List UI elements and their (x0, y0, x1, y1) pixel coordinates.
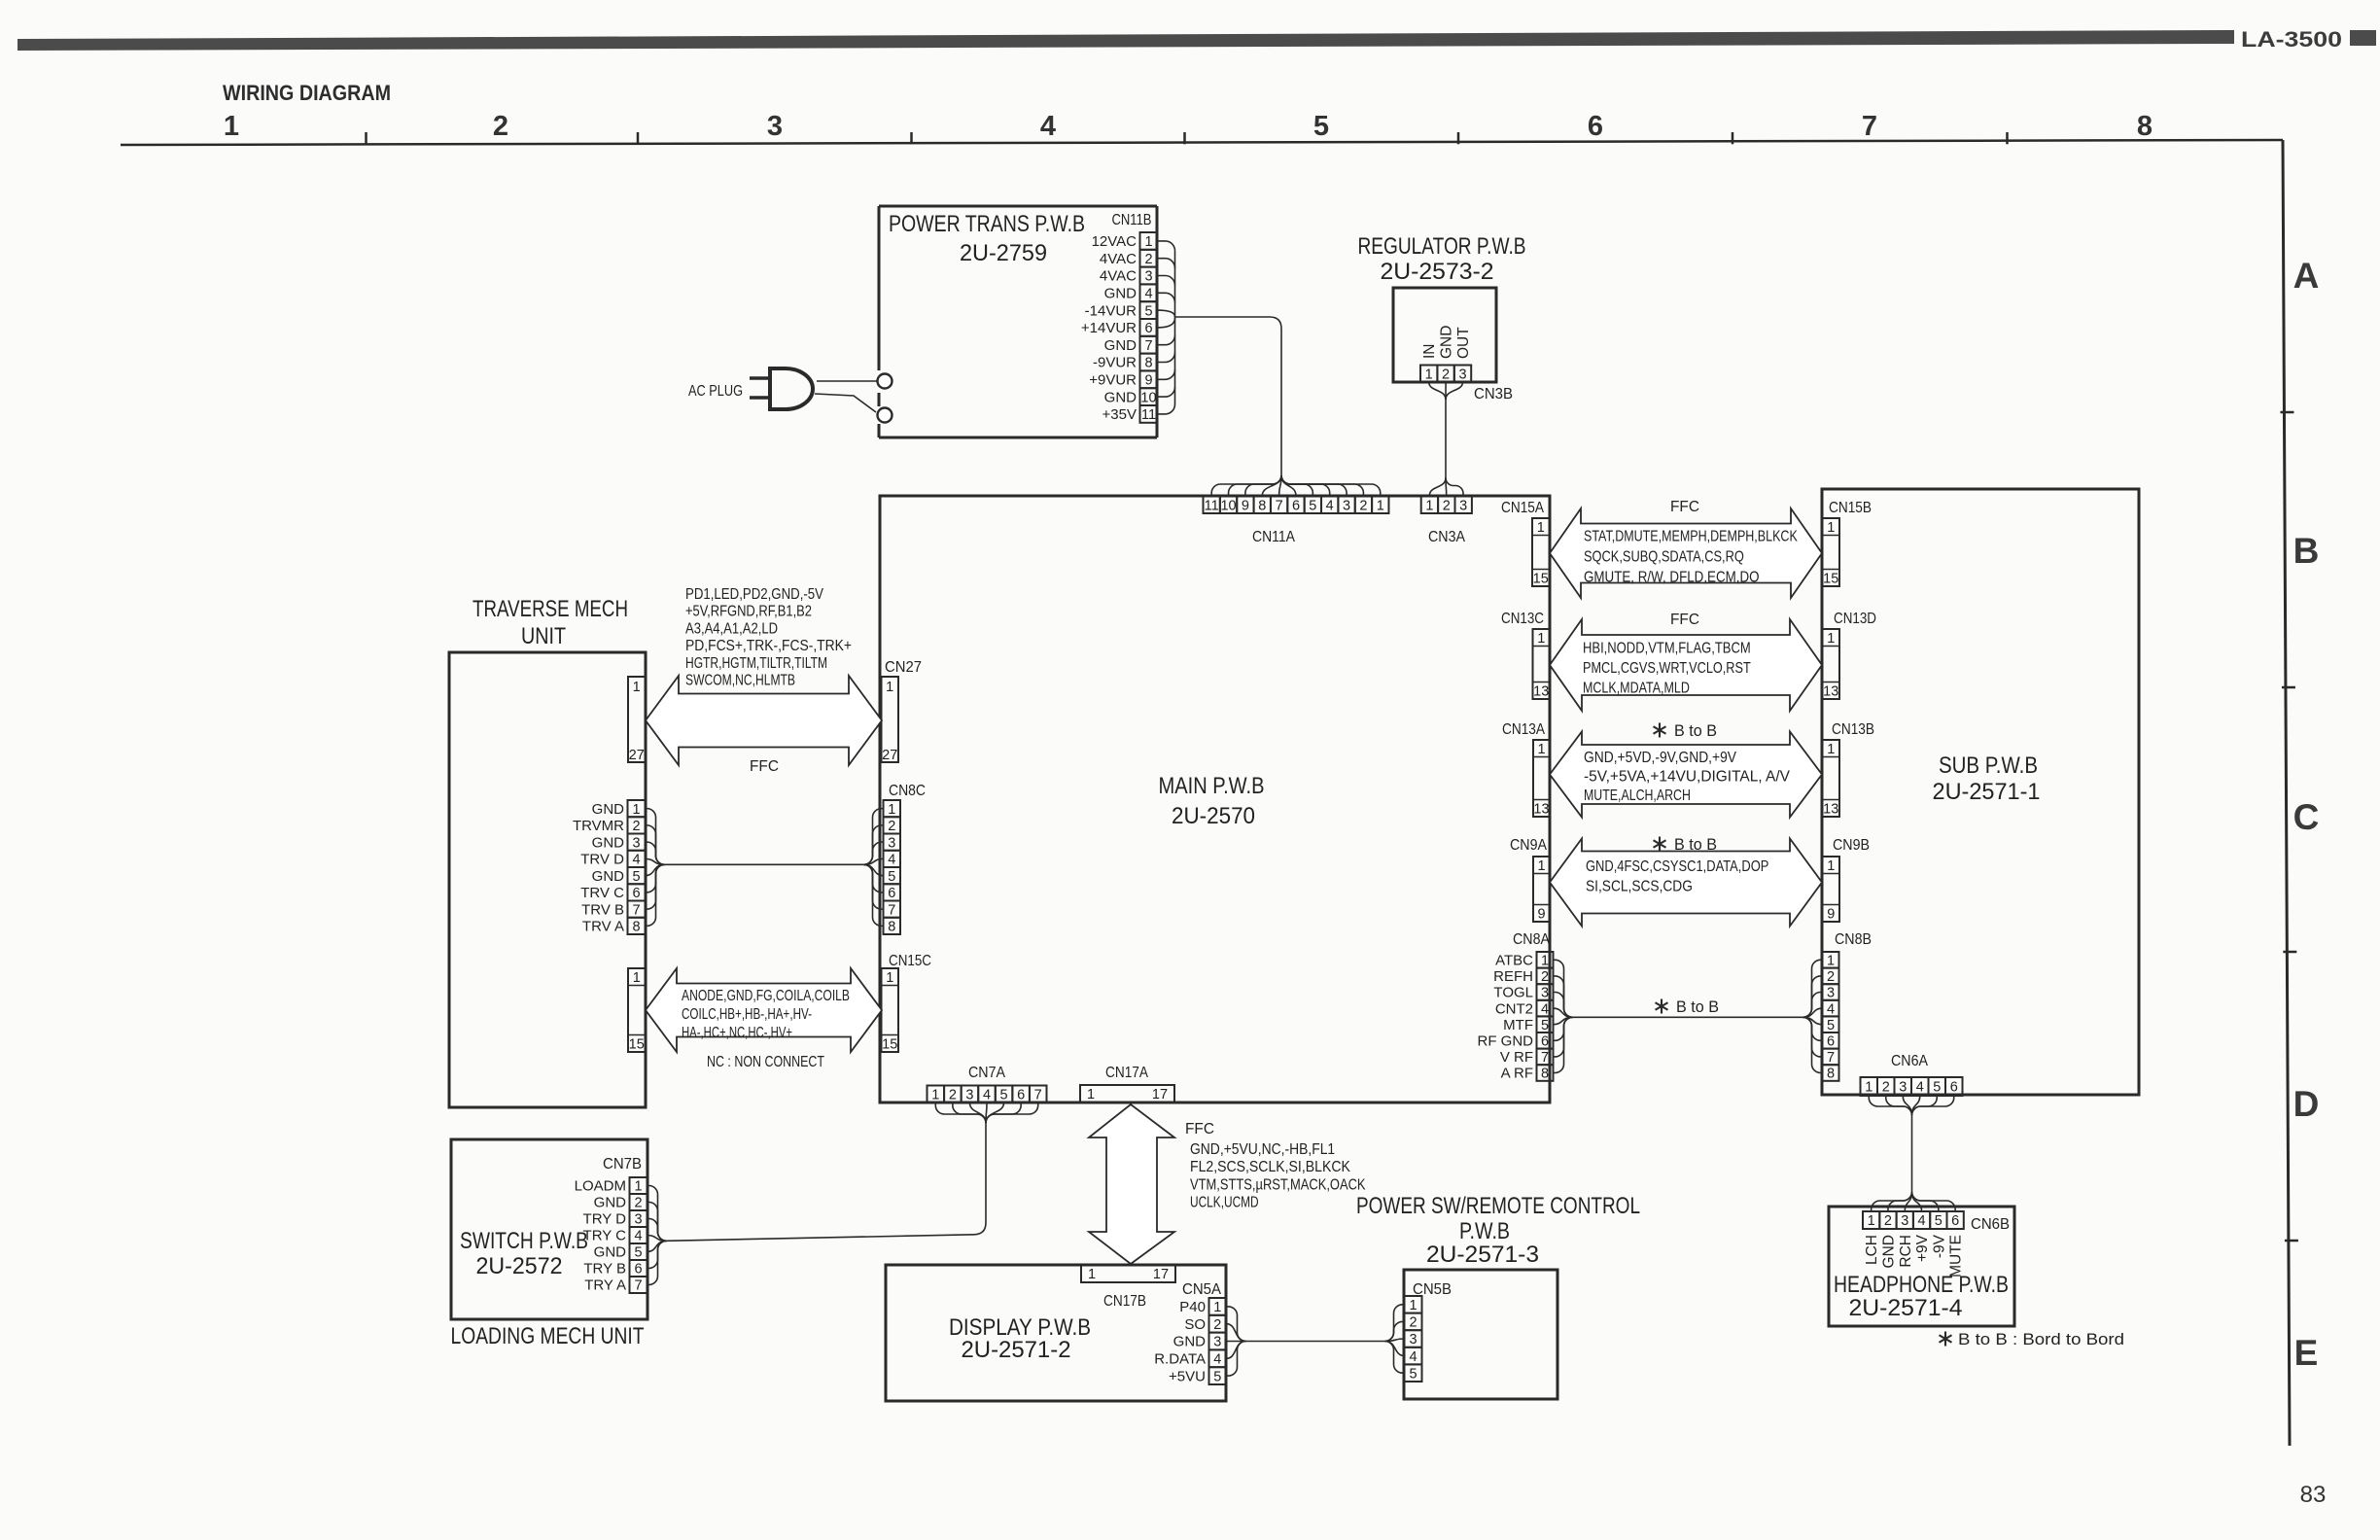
svg-text:PD,FCS+,TRK-,FCS-,TRK+: PD,FCS+,TRK-,FCS-,TRK+ (685, 638, 852, 654)
connector CN8B pins 1-8 (1823, 952, 1839, 968)
svg-text:CN11A: CN11A (1252, 529, 1296, 545)
svg-text:+9VUR: +9VUR (1089, 372, 1137, 389)
board REGULATOR P.W.B 2U-2573-2 (1393, 288, 1496, 382)
svg-text:CN13B: CN13B (1832, 721, 1874, 738)
svg-text:5: 5 (1313, 111, 1329, 142)
svg-text:C: C (2293, 797, 2320, 837)
connector CN6A pins 1-6 (1861, 1077, 1878, 1096)
svg-text:6: 6 (1588, 111, 1603, 142)
svg-text:4: 4 (634, 1229, 642, 1244)
ruler tick marks (365, 132, 367, 144)
FFC arrow CN13C-CN13D (1550, 619, 1822, 711)
connector CN15C column (882, 968, 899, 1052)
svg-text:RCH: RCH (1898, 1235, 1914, 1268)
svg-text:7: 7 (1827, 1050, 1835, 1066)
svg-text:CN27: CN27 (885, 659, 922, 676)
svg-text:GND,+5VD,-9V,GND,+9V: GND,+5VD,-9V,GND,+9V (1584, 750, 1736, 766)
svg-text:B to B : Bord to Bord: B to B : Bord to Bord (1958, 1331, 2124, 1348)
board HEADPHONE P.W.B 2U-2571-4 (1829, 1207, 2014, 1326)
svg-text:2U-2571-2: 2U-2571-2 (962, 1337, 1071, 1363)
svg-text:-9VUR: -9VUR (1093, 355, 1137, 371)
AC plug symbol (770, 368, 813, 409)
connector CN15B column (1823, 518, 1840, 586)
svg-text:7: 7 (888, 902, 895, 918)
connector CN13D column (1823, 629, 1840, 699)
svg-text:2: 2 (634, 1196, 642, 1211)
BtoB arrow CN13A-CN13B (1550, 732, 1822, 818)
svg-text:2: 2 (1213, 1317, 1221, 1333)
svg-text:8: 8 (1827, 1067, 1835, 1082)
board DISPLAY P.W.B 2U-2571-2 (886, 1265, 1226, 1401)
svg-text:CN3A: CN3A (1428, 529, 1466, 545)
wire CN3B to CN3A (1429, 382, 1446, 400)
svg-text:9: 9 (1537, 906, 1545, 922)
svg-text:MUTE,ALCH,ARCH: MUTE,ALCH,ARCH (1584, 787, 1691, 804)
connector CN9B column (1823, 857, 1840, 922)
svg-text:1: 1 (886, 970, 893, 986)
svg-text:12VAC: 12VAC (1092, 233, 1137, 250)
svg-text:1: 1 (1377, 498, 1384, 513)
svg-text:4: 4 (888, 853, 895, 868)
svg-text:GND: GND (1439, 326, 1455, 359)
svg-text:1: 1 (633, 680, 641, 695)
svg-text:3: 3 (1459, 498, 1467, 513)
board MAIN P.W.B 2U-2570 (880, 496, 1550, 1102)
svg-text:4: 4 (632, 853, 640, 868)
svg-text:LA-3500: LA-3500 (2241, 27, 2342, 52)
svg-text:LCH: LCH (1864, 1235, 1880, 1265)
connector CN13A column (1533, 740, 1550, 817)
svg-text:GND: GND (1104, 389, 1137, 405)
svg-text:CN15A: CN15A (1501, 500, 1545, 516)
label B to B 3 (1661, 999, 1662, 1014)
svg-text:1: 1 (931, 1087, 939, 1102)
svg-text:CN3B: CN3B (1474, 386, 1513, 402)
svg-text:3: 3 (1899, 1080, 1907, 1096)
svg-text:COILC,HB+,HB-,HA+,HV-: COILC,HB+,HB-,HA+,HV- (682, 1006, 812, 1023)
svg-text:8: 8 (2137, 111, 2152, 142)
svg-text:SUB P.W.B: SUB P.W.B (1939, 752, 2038, 779)
svg-text:HBI,NODD,VTM,FLAG,TBCM: HBI,NODD,VTM,FLAG,TBCM (1583, 641, 1751, 657)
svg-text:5: 5 (1144, 303, 1152, 319)
svg-text:2: 2 (1884, 1213, 1892, 1229)
svg-text:GND: GND (1104, 286, 1137, 302)
svg-text:CN13A: CN13A (1502, 721, 1546, 738)
wire bus CN11B to CN11A (1158, 241, 1175, 251)
svg-text:FFC: FFC (1670, 612, 1699, 628)
connector CN17A box (1080, 1085, 1174, 1102)
svg-text:10: 10 (1220, 498, 1236, 513)
wire bundle CN8A to CN8B (1554, 960, 1573, 1017)
svg-text:1: 1 (1537, 520, 1545, 536)
svg-text:2: 2 (632, 819, 640, 834)
svg-text:6: 6 (1951, 1213, 1959, 1229)
svg-text:3: 3 (1343, 498, 1350, 513)
svg-text:1: 1 (1537, 742, 1545, 757)
svg-text:6: 6 (1950, 1080, 1958, 1096)
svg-text:1: 1 (633, 970, 641, 986)
svg-text:STAT,DMUTE,MEMPH,DEMPH,BLKCK: STAT,DMUTE,MEMPH,DEMPH,BLKCK (1584, 529, 1798, 545)
svg-text:CN7A: CN7A (968, 1065, 1006, 1081)
connector CN7A pins 1-7 (927, 1086, 945, 1103)
svg-text:RF GND: RF GND (1478, 1033, 1534, 1050)
note B to B Bord to Bord (1944, 1332, 1946, 1347)
svg-text:4VAC: 4VAC (1100, 268, 1137, 285)
svg-text:GND,4FSC,CSYSC1,DATA,DOP: GND,4FSC,CSYSC1,DATA,DOP (1586, 858, 1768, 875)
connector CN13C column (1533, 629, 1551, 699)
svg-text:UNIT: UNIT (521, 623, 566, 649)
board POWER SW REMOTE CONTROL P.W.B 2U-2571-3 (1404, 1270, 1557, 1399)
svg-text:2: 2 (493, 111, 508, 142)
svg-text:2: 2 (1827, 969, 1835, 985)
svg-text:11: 11 (1205, 498, 1219, 513)
svg-text:CN9A: CN9A (1510, 837, 1548, 854)
svg-text:83: 83 (2300, 1482, 2327, 1508)
svg-text:B to B: B to B (1674, 836, 1717, 854)
svg-text:7: 7 (632, 902, 640, 918)
svg-text:7: 7 (1144, 338, 1152, 354)
svg-text:27: 27 (629, 748, 645, 763)
power switch contact top (878, 374, 892, 389)
svg-text:AC PLUG: AC PLUG (688, 383, 743, 400)
svg-text:TRY B: TRY B (583, 1261, 626, 1277)
svg-text:2: 2 (1144, 252, 1152, 267)
svg-text:SI,SCL,SCS,CDG: SI,SCL,SCS,CDG (1586, 879, 1693, 895)
svg-text:4: 4 (1409, 1349, 1417, 1365)
svg-text:REGULATOR P.W.B: REGULATOR P.W.B (1358, 233, 1526, 260)
svg-text:GND: GND (1880, 1235, 1897, 1268)
svg-text:FFC: FFC (1670, 499, 1699, 515)
svg-text:2U-2571-4: 2U-2571-4 (1849, 1295, 1963, 1321)
svg-text:1: 1 (224, 111, 239, 142)
wire AC plug to switch contacts (817, 380, 877, 382)
svg-text:GND: GND (1173, 1334, 1207, 1350)
svg-text:MTF: MTF (1503, 1017, 1533, 1033)
svg-text:GND,+5VU,NC,-HB,FL1: GND,+5VU,NC,-HB,FL1 (1190, 1141, 1335, 1158)
svg-text:11: 11 (1141, 407, 1156, 423)
svg-text:HEADPHONE P.W.B: HEADPHONE P.W.B (1834, 1272, 2009, 1298)
svg-text:7: 7 (1034, 1087, 1042, 1102)
svg-text:6: 6 (1827, 1034, 1835, 1050)
svg-text:REFH: REFH (1493, 968, 1533, 985)
svg-text:TRV D: TRV D (580, 852, 624, 868)
svg-text:A: A (2293, 256, 2320, 296)
svg-text:1: 1 (1865, 1080, 1872, 1096)
svg-text:6: 6 (1541, 1034, 1549, 1050)
svg-text:17: 17 (1153, 1267, 1169, 1282)
svg-text:SQCK,SUBQ,SDATA,CS,RQ: SQCK,SUBQ,SDATA,CS,RQ (1584, 549, 1744, 566)
svg-text:LOADM: LOADM (575, 1178, 626, 1195)
svg-text:1: 1 (1088, 1267, 1096, 1282)
board SWITCH P.W.B 2U-2572 (451, 1139, 647, 1319)
connector CN15A column (1532, 518, 1550, 586)
svg-text:HGTR,HGTM,TILTR,TILTM: HGTR,HGTM,TILTR,TILTM (685, 655, 827, 672)
svg-text:P.W.B: P.W.B (1459, 1218, 1510, 1244)
svg-text:2U-2759: 2U-2759 (960, 240, 1047, 266)
svg-text:1: 1 (886, 680, 893, 695)
svg-text:IN: IN (1421, 344, 1438, 360)
svg-text:3: 3 (1541, 986, 1549, 1001)
svg-text:2U-2571-3: 2U-2571-3 (1426, 1242, 1539, 1268)
svg-text:3: 3 (632, 835, 640, 851)
svg-text:5: 5 (1935, 1213, 1942, 1229)
svg-text:CN9B: CN9B (1833, 837, 1870, 854)
svg-text:SWITCH P.W.B: SWITCH P.W.B (460, 1228, 588, 1254)
svg-text:4: 4 (1326, 498, 1334, 513)
svg-text:D: D (2293, 1084, 2320, 1124)
svg-text:4: 4 (1918, 1213, 1926, 1229)
svg-text:7: 7 (1862, 111, 1877, 142)
svg-text:B: B (2293, 531, 2320, 571)
svg-text:1: 1 (1827, 520, 1835, 536)
wire bus CN7B to CN7A (647, 1186, 667, 1242)
svg-text:2U-2570: 2U-2570 (1172, 803, 1255, 829)
svg-text:CN8B: CN8B (1835, 931, 1872, 948)
svg-text:OUT: OUT (1455, 327, 1472, 359)
svg-text:E: E (2294, 1333, 2319, 1373)
svg-text:2: 2 (1882, 1080, 1890, 1096)
svg-text:TRY C: TRY C (583, 1228, 627, 1244)
label B to B 1 (1659, 723, 1661, 738)
svg-text:6: 6 (634, 1262, 642, 1277)
svg-text:ATBC: ATBC (1495, 953, 1533, 969)
svg-text:8: 8 (1144, 356, 1152, 371)
board SUB P.W.B 2U-2571-1 (1822, 489, 2139, 1095)
svg-text:1: 1 (1537, 858, 1545, 874)
wire comb into CN6B (1872, 1192, 1912, 1211)
svg-text:2: 2 (1442, 367, 1450, 382)
svg-text:1: 1 (632, 802, 640, 818)
svg-text:1: 1 (1213, 1300, 1221, 1315)
svg-text:2U-2572: 2U-2572 (476, 1253, 563, 1279)
header bar end segment (2350, 30, 2376, 46)
svg-text:CN13C: CN13C (1501, 611, 1544, 627)
svg-text:B to B: B to B (1676, 998, 1719, 1016)
svg-text:5: 5 (1827, 1018, 1835, 1033)
board POWER TRANS P.W.B 2U-2759 (879, 205, 1157, 208)
svg-text:1: 1 (1537, 631, 1545, 647)
svg-text:CNT2: CNT2 (1495, 1000, 1533, 1017)
svg-text:2U-2573-2: 2U-2573-2 (1381, 259, 1494, 285)
svg-text:6: 6 (1292, 498, 1300, 513)
svg-text:5: 5 (1409, 1366, 1417, 1382)
svg-text:4: 4 (983, 1087, 991, 1102)
svg-text:8: 8 (888, 920, 895, 935)
svg-text:HA-,HC+,NC,HC-,HV+: HA-,HC+,NC,HC-,HV+ (682, 1025, 792, 1041)
svg-text:1: 1 (1087, 1087, 1095, 1102)
svg-text:27: 27 (882, 748, 897, 763)
svg-text:3: 3 (965, 1087, 973, 1102)
svg-text:MCLK,MDATA,MLD: MCLK,MDATA,MLD (1583, 681, 1690, 697)
svg-text:ANODE,GND,FG,COILA,COILB: ANODE,GND,FG,COILA,COILB (682, 988, 850, 1004)
traverse connector column 1-15 (628, 968, 646, 1052)
BtoB arrow CN9A-CN9B (1550, 839, 1822, 927)
svg-text:8: 8 (1541, 1067, 1549, 1082)
svg-text:R.DATA: R.DATA (1154, 1351, 1206, 1368)
svg-text:15: 15 (629, 1036, 645, 1052)
svg-text:5: 5 (634, 1245, 642, 1261)
connector CN11B pins 1-11 (1140, 232, 1158, 250)
svg-text:1: 1 (1827, 631, 1835, 647)
svg-text:TRY D: TRY D (583, 1211, 627, 1228)
traverse mech pins 1-8 (628, 800, 646, 817)
svg-text:2: 2 (949, 1087, 957, 1102)
svg-text:NC : NON CONNECT: NC : NON CONNECT (707, 1054, 824, 1070)
svg-text:2: 2 (888, 819, 895, 834)
svg-text:3: 3 (1458, 367, 1466, 382)
label B to B 2 (1659, 837, 1661, 852)
svg-text:CN17B: CN17B (1103, 1293, 1146, 1310)
svg-text:4: 4 (1213, 1352, 1221, 1368)
svg-text:A3,A4,A1,A2,LD: A3,A4,A1,A2,LD (685, 620, 778, 637)
board TRAVERSE MECH UNIT (449, 652, 646, 1107)
svg-text:4: 4 (1144, 287, 1152, 302)
svg-text:17: 17 (1152, 1087, 1168, 1102)
svg-text:CN8C: CN8C (889, 783, 926, 799)
svg-text:5: 5 (632, 869, 640, 885)
svg-text:FFC: FFC (750, 758, 779, 775)
svg-text:1: 1 (1827, 858, 1835, 874)
svg-text:5: 5 (1309, 498, 1316, 513)
svg-text:GND: GND (1104, 337, 1137, 354)
power switch contact bottom (878, 408, 892, 423)
svg-text:V RF: V RF (1500, 1049, 1533, 1066)
svg-text:A RF: A RF (1501, 1066, 1533, 1082)
svg-text:CN15B: CN15B (1829, 500, 1872, 516)
svg-text:TRAVERSE MECH: TRAVERSE MECH (472, 596, 628, 622)
svg-text:1: 1 (1868, 1213, 1875, 1229)
FFC arrow CN27 (646, 676, 882, 765)
right border line (2283, 140, 2290, 1446)
svg-text:CN6A: CN6A (1891, 1053, 1929, 1069)
connector CN8C pins 1-8 (884, 800, 901, 817)
svg-text:13: 13 (1823, 683, 1838, 699)
svg-text:P40: P40 (1179, 1299, 1206, 1315)
traverse connector column 1-27 (628, 677, 646, 762)
svg-text:CN8A: CN8A (1513, 931, 1551, 948)
svg-text:3: 3 (1901, 1213, 1908, 1229)
svg-text:4: 4 (1827, 1001, 1835, 1017)
FFC arrow CN15A-CN15B (1550, 508, 1822, 598)
svg-text:1: 1 (1541, 954, 1549, 969)
svg-text:15: 15 (882, 1036, 897, 1052)
connector CN11A pins 11-1 (1204, 497, 1220, 514)
page header bar (17, 30, 2234, 51)
svg-text:4VAC: 4VAC (1100, 251, 1137, 267)
svg-text:3: 3 (634, 1212, 642, 1228)
svg-text:6: 6 (1017, 1087, 1025, 1102)
connector CN5B pins 1-5 (1405, 1296, 1422, 1313)
svg-text:4: 4 (1916, 1080, 1924, 1096)
svg-text:CN7B: CN7B (603, 1156, 642, 1172)
svg-text:CN6B: CN6B (1971, 1216, 2010, 1233)
FFC arrow CN17A-CN17B (1089, 1104, 1174, 1264)
svg-text:+5VU: +5VU (1169, 1368, 1206, 1384)
wire bundle traverse to CN8C (646, 809, 665, 865)
svg-text:PMCL,CGVS,WRT,VCLO,RST: PMCL,CGVS,WRT,VCLO,RST (1583, 660, 1751, 677)
svg-text:5: 5 (888, 869, 895, 885)
svg-text:1: 1 (1425, 498, 1433, 513)
svg-text:1: 1 (1144, 234, 1152, 250)
svg-text:GND: GND (592, 868, 625, 885)
svg-text:3: 3 (1827, 986, 1835, 1001)
wire comb into CN11A (1211, 475, 1281, 496)
svg-text:-14VUR: -14VUR (1085, 302, 1137, 319)
connector CN17B box (1081, 1265, 1175, 1282)
svg-text:MAIN P.W.B: MAIN P.W.B (1159, 773, 1265, 799)
svg-text:2U-2571-1: 2U-2571-1 (1933, 779, 2041, 805)
connector CN7B pins 1-7 (630, 1177, 647, 1194)
svg-text:-9V: -9V (1931, 1234, 1947, 1258)
svg-text:GND: GND (594, 1195, 627, 1211)
svg-text:3: 3 (1213, 1335, 1221, 1350)
svg-text:8: 8 (1258, 498, 1266, 513)
connector CN27 column (882, 677, 899, 762)
svg-text:2: 2 (1443, 498, 1451, 513)
svg-text:FL2,SCS,SCLK,SI,BLKCK: FL2,SCS,SCLK,SI,BLKCK (1190, 1159, 1350, 1175)
svg-text:4: 4 (1541, 1001, 1549, 1017)
svg-text:7: 7 (634, 1278, 642, 1294)
svg-text:GND: GND (592, 834, 625, 851)
connector CN6B pins 1-6 (1863, 1211, 1879, 1229)
svg-text:VTM,STTS,µRST,MACK,OACK: VTM,STTS,µRST,MACK,OACK (1190, 1176, 1366, 1193)
svg-text:3: 3 (1409, 1332, 1417, 1347)
svg-text:1: 1 (1827, 742, 1835, 757)
svg-text:13: 13 (1533, 801, 1549, 817)
svg-text:WIRING DIAGRAM: WIRING DIAGRAM (223, 81, 391, 105)
svg-text:2: 2 (1409, 1315, 1417, 1331)
svg-text:TRVMR: TRVMR (573, 818, 624, 834)
svg-text:+9V: +9V (1914, 1234, 1931, 1262)
svg-text:3: 3 (1144, 269, 1152, 285)
svg-text:TRV C: TRV C (580, 885, 624, 901)
svg-text:B to B: B to B (1674, 722, 1717, 740)
svg-text:10: 10 (1140, 390, 1156, 405)
svg-text:8: 8 (632, 920, 640, 935)
svg-text:+5V,RFGND,RF,B1,B2: +5V,RFGND,RF,B1,B2 (685, 604, 812, 620)
connector CN9A column (1533, 857, 1550, 922)
svg-text:TRV A: TRV A (582, 919, 624, 935)
svg-text:CN11B: CN11B (1112, 212, 1152, 228)
svg-text:+14VUR: +14VUR (1081, 320, 1137, 336)
wire bundle CN6A to CN6B (1869, 1096, 1911, 1115)
svg-text:TOGL: TOGL (1493, 985, 1533, 1001)
svg-text:GMUTE, R/W, DFLD,ECM,DO: GMUTE, R/W, DFLD,ECM,DO (1584, 570, 1760, 586)
svg-text:9: 9 (1242, 498, 1249, 513)
svg-text:2: 2 (1541, 969, 1549, 985)
svg-text:TRY A: TRY A (584, 1277, 626, 1294)
svg-text:POWER TRANS P.W.B: POWER TRANS P.W.B (889, 211, 1085, 237)
svg-text:15: 15 (1533, 571, 1549, 586)
FFC arrow CN15C (646, 968, 882, 1052)
connector CN3B pins 1-3 (1420, 366, 1437, 383)
svg-text:1: 1 (1425, 367, 1433, 382)
svg-text:+35V: +35V (1102, 406, 1137, 423)
svg-text:1: 1 (1827, 954, 1835, 969)
svg-text:TRV B: TRV B (581, 901, 624, 918)
svg-text:6: 6 (632, 886, 640, 901)
svg-text:LOADING MECH UNIT: LOADING MECH UNIT (451, 1323, 645, 1349)
svg-text:1: 1 (1409, 1298, 1417, 1313)
svg-text:PD1,LED,PD2,GND,-5V: PD1,LED,PD2,GND,-5V (685, 586, 823, 603)
svg-text:CN15C: CN15C (889, 953, 931, 969)
border tick marks (2280, 411, 2293, 414)
wire CN5A to CN5B (1227, 1307, 1246, 1342)
svg-text:5: 5 (1000, 1087, 1008, 1102)
svg-text:2: 2 (1359, 498, 1367, 513)
svg-text:POWER SW/REMOTE CONTROL: POWER SW/REMOTE CONTROL (1356, 1193, 1640, 1219)
svg-text:CN5A: CN5A (1182, 1281, 1222, 1298)
